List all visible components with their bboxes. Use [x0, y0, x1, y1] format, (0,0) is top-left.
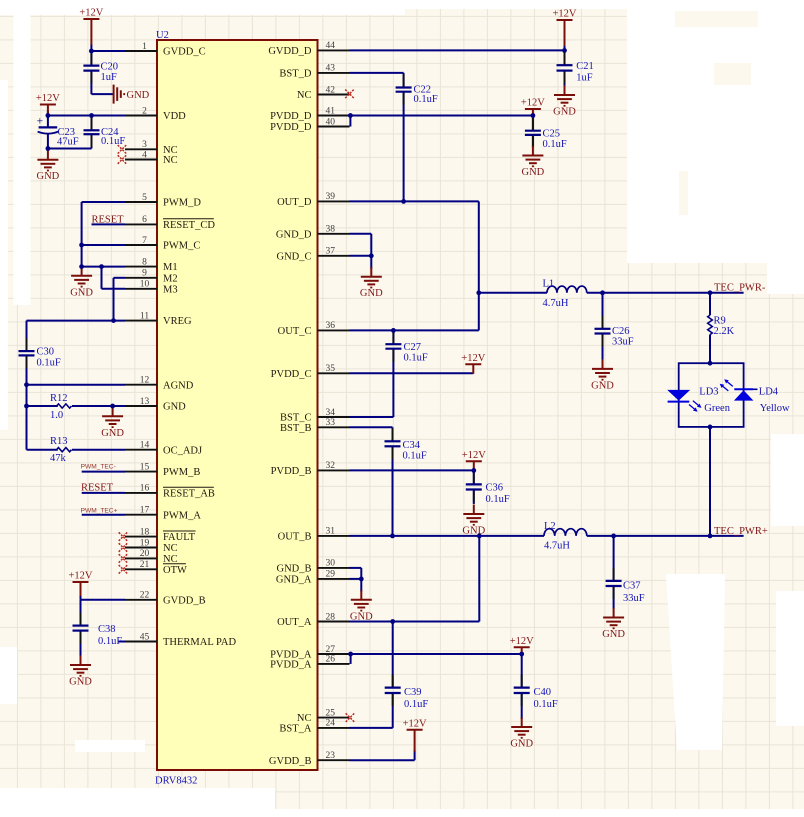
node junction at 710,426.9 — [708, 425, 713, 430]
ground — [350, 590, 373, 622]
wire pin23 GVDD_B — [350, 759, 415, 761]
svg-text:1.0: 1.0 — [50, 410, 63, 421]
wire C25 top lead — [532, 116, 534, 131]
wire pin13 GND right — [72, 405, 125, 407]
op-amp U1 - main IC U2 DRV8432 body — [155, 30, 318, 787]
wire +12V to pin1 — [90, 44, 92, 51]
svg-text:18: 18 — [140, 527, 150, 537]
pin 42 NC (right) — [297, 85, 350, 101]
svg-text:Yellow: Yellow — [760, 403, 790, 414]
wire C20 bottom — [90, 71, 92, 95]
pin 21 OTW (left) — [125, 560, 187, 576]
capacitor C27 — [385, 331, 427, 363]
wire C36 bottom lead — [473, 490, 475, 505]
wire C26 top lead — [602, 293, 604, 329]
wire pin28 OUT_A — [350, 621, 480, 623]
svg-text:31: 31 — [326, 527, 336, 537]
svg-text:OUT_C: OUT_C — [278, 326, 312, 337]
pin 35 PVDD_C (right) — [271, 364, 350, 380]
wire R9 top lead — [709, 293, 711, 315]
svg-text:24: 24 — [326, 719, 336, 729]
node junction at 710,363.2 — [708, 361, 713, 366]
wire pin38 GND_D — [350, 233, 372, 235]
pin 23 GVDD_B (right) — [269, 751, 350, 767]
svg-text:RESET_CD: RESET_CD — [163, 220, 215, 231]
pin 36 OUT_C (right) — [278, 321, 350, 337]
svg-text:THERMAL PAD: THERMAL PAD — [163, 637, 236, 648]
pin 28 OUT_A (right) — [277, 612, 349, 628]
svg-text:VREG: VREG — [163, 316, 192, 327]
pin 18 FAULT (left) — [125, 527, 196, 543]
svg-text:C38: C38 — [98, 624, 116, 635]
pin 9 M2 (left) — [125, 269, 178, 285]
svg-text:+12V: +12V — [462, 450, 486, 461]
svg-text:C36: C36 — [486, 483, 504, 494]
svg-text:C34: C34 — [403, 440, 421, 451]
wire pin17 PWM_A — [82, 514, 125, 516]
wire pin7 PWM_C — [82, 244, 125, 246]
node junction at 392.7,621.5 — [390, 619, 395, 624]
wire GND_BA stem — [360, 579, 362, 592]
svg-text:+12V: +12V — [510, 636, 534, 647]
svg-text:8: 8 — [142, 257, 147, 267]
svg-text:GND: GND — [591, 380, 614, 391]
svg-text:7: 7 — [142, 236, 147, 246]
capacitor C21 — [557, 52, 594, 83]
svg-text:17: 17 — [140, 506, 150, 516]
svg-text:NC: NC — [297, 90, 312, 101]
svg-text:U2: U2 — [156, 30, 169, 41]
ground — [553, 86, 576, 118]
svg-text:38: 38 — [326, 225, 336, 235]
svg-text:M1: M1 — [163, 262, 178, 273]
wire +12V to VDD — [47, 111, 49, 116]
svg-text:TEC_PWR+: TEC_PWR+ — [714, 526, 768, 537]
svg-text:RESET: RESET — [81, 482, 114, 493]
svg-text:+12V: +12V — [403, 718, 427, 729]
pin 26 PVDD_A (right) — [270, 655, 349, 671]
svg-text:GND: GND — [522, 167, 545, 178]
pin 27 PVDD_A (right) — [270, 645, 349, 661]
no-connect X — [118, 155, 127, 164]
wire pin2 VDD — [48, 115, 125, 117]
pin 30 GND_B (right) — [276, 559, 349, 575]
svg-text:TEC_PWR-: TEC_PWR- — [714, 283, 766, 294]
pin 12 AGND (left) — [125, 376, 194, 392]
svg-text:26: 26 — [326, 655, 336, 665]
pin 34 BST_C (right) — [280, 408, 350, 424]
node junction at 113.5,320.6 — [111, 318, 116, 323]
capacitor C26 — [595, 316, 634, 348]
svg-text:2: 2 — [142, 106, 147, 116]
pin 7 PWM_C (left) — [125, 236, 200, 252]
power +12V — [462, 450, 486, 471]
ground — [462, 505, 485, 537]
no-connect X — [346, 713, 355, 722]
svg-text:0.1uF: 0.1uF — [543, 139, 567, 150]
pin 4 NC (left) — [125, 150, 178, 166]
node junction at 350.6,654 — [348, 652, 353, 657]
wire pin11 VREG — [27, 320, 126, 322]
wire pin27 PVDD_A — [350, 653, 522, 655]
pin 19 NC (left) — [125, 538, 178, 554]
svg-text:LD3: LD3 — [699, 387, 718, 398]
node junction at 479.3,535.9 — [477, 534, 482, 539]
wire pin8 M1 — [82, 266, 125, 268]
wire pin41 PVDD_D — [350, 115, 533, 117]
svg-text:R9: R9 — [714, 316, 726, 327]
ground — [360, 267, 383, 299]
wire pin13 gnd stem — [112, 406, 114, 408]
svg-text:+: + — [37, 115, 44, 127]
wire pin26 link — [350, 654, 352, 664]
wire C37 top lead — [613, 536, 615, 581]
svg-text:GND: GND — [602, 629, 625, 640]
pin 44 GVDD_D (right) — [268, 41, 349, 57]
svg-text:5: 5 — [142, 193, 147, 203]
ground — [70, 266, 93, 298]
svg-text:BST_D: BST_D — [279, 69, 312, 80]
svg-text:10: 10 — [140, 280, 150, 290]
svg-text:PWM_TEC+: PWM_TEC+ — [81, 507, 118, 514]
pin 16 RESET_AB (left) — [125, 484, 215, 500]
svg-text:C39: C39 — [404, 687, 422, 698]
svg-text:32: 32 — [326, 461, 336, 471]
svg-text:C26: C26 — [612, 326, 630, 337]
capacitor C36 — [466, 471, 510, 505]
ground — [510, 718, 533, 750]
node junction at 47.9,148.5 — [46, 146, 51, 151]
svg-text:DRV8432: DRV8432 — [155, 776, 197, 787]
svg-text:27: 27 — [326, 645, 336, 655]
svg-text:47uF: 47uF — [57, 136, 79, 147]
wire +12V to pin23 — [414, 750, 416, 760]
svg-text:35: 35 — [326, 364, 336, 374]
svg-text:19: 19 — [140, 538, 150, 548]
svg-text:PVDD_A: PVDD_A — [270, 660, 312, 671]
node junction at 26.5,384.7 — [24, 382, 29, 387]
ground — [69, 656, 92, 688]
wire C34 top lead — [392, 427, 394, 441]
svg-text:GND: GND — [163, 402, 186, 413]
node junction at 403.6,201.4 — [401, 199, 406, 204]
svg-text:GND: GND — [101, 428, 124, 439]
ground — [522, 146, 545, 178]
svg-text:16: 16 — [140, 484, 150, 494]
capacitor C34 — [385, 428, 427, 461]
wire pin31 OUT_B — [350, 535, 545, 537]
svg-text:GND: GND — [37, 171, 60, 182]
wire pin5-pin8 vertical — [81, 202, 83, 267]
wire OUT_B to OUT_A — [478, 536, 480, 622]
resistor R13 — [50, 436, 72, 464]
capacitor C20 — [83, 53, 118, 84]
power +12V — [552, 9, 576, 46]
wire GND_B down — [360, 568, 362, 579]
svg-text:C25: C25 — [543, 129, 561, 140]
wire C39 top lead — [392, 622, 394, 688]
pin 40 PVDD_D (right) — [270, 117, 349, 133]
wire pin39 OUT_D — [350, 200, 479, 202]
wire C24 top lead — [91, 116, 93, 131]
pin 24 BST_A (right) — [279, 719, 349, 735]
svg-text:36: 36 — [326, 321, 336, 331]
LED LD3 Green — [667, 387, 731, 415]
svg-text:+12V: +12V — [521, 98, 545, 109]
wire pin45 stub — [118, 641, 125, 643]
capacitor C39 — [385, 675, 429, 710]
svg-text:30: 30 — [326, 559, 336, 569]
svg-text:+12V: +12V — [461, 353, 485, 364]
wire L2 right — [587, 535, 744, 537]
wire C40 bottom lead — [521, 693, 523, 719]
node junction at 91.4,51 — [89, 49, 94, 54]
pin 37 GND_C (right) — [276, 247, 349, 263]
wire C37 bottom lead — [613, 586, 615, 609]
pin 13 GND (left) — [125, 397, 186, 413]
resistor R12 — [50, 393, 72, 421]
capacitor C40 — [514, 675, 558, 710]
capacitor C30 — [19, 338, 61, 368]
svg-text:44: 44 — [326, 41, 336, 51]
svg-text:Green: Green — [704, 403, 730, 414]
wire C26 bottom lead — [602, 334, 604, 361]
svg-text:GVDD_C: GVDD_C — [163, 47, 206, 58]
capacitor C25 — [525, 118, 567, 150]
wire pin29 GND_A — [350, 578, 362, 580]
svg-text:PWM_D: PWM_D — [163, 198, 201, 209]
svg-text:OUT_D: OUT_D — [277, 197, 312, 208]
power +12V — [79, 8, 103, 45]
svg-text:GVDD_B: GVDD_B — [163, 595, 206, 606]
svg-text:L1: L1 — [543, 279, 555, 290]
white patch top band — [0, 0, 405, 15]
node junction at 478.8,292.8 — [476, 290, 481, 295]
wire pin1 GVDD_C — [91, 50, 125, 52]
svg-text:NC: NC — [163, 155, 178, 166]
wire pin44 GVDD_D — [350, 49, 565, 51]
wire GND_D down — [370, 234, 372, 256]
capacitor C24 — [84, 117, 126, 147]
wire C24 bottom lead — [91, 134, 93, 148]
svg-text:0.1uF: 0.1uF — [403, 451, 427, 462]
svg-text:BST_A: BST_A — [279, 724, 312, 735]
svg-text:PVDD_D: PVDD_D — [270, 111, 312, 122]
pin 41 PVDD_D (right) — [270, 106, 349, 122]
svg-text:GND: GND — [360, 288, 383, 299]
svg-text:+12V: +12V — [68, 571, 92, 582]
svg-text:C37: C37 — [623, 581, 641, 592]
pin 11 VREG (left) — [125, 311, 192, 327]
svg-text:C30: C30 — [37, 347, 55, 358]
svg-text:OTW: OTW — [163, 565, 187, 576]
node junction at 350.4,115.5 — [348, 113, 353, 118]
pin 22 GVDD_B (left) — [125, 591, 206, 607]
wire pin36 OUT_C — [350, 329, 479, 331]
svg-text:40: 40 — [326, 117, 336, 127]
svg-text:47k: 47k — [50, 453, 67, 464]
svg-text:11: 11 — [140, 311, 149, 321]
pin 43 BST_D (right) — [279, 64, 349, 80]
power +12V — [36, 93, 60, 115]
svg-text:33uF: 33uF — [623, 593, 645, 604]
svg-text:BST_B: BST_B — [280, 423, 312, 434]
svg-text:GND_B: GND_B — [276, 564, 311, 575]
wire C30 bottom vertical — [26, 355, 28, 449]
no-connect X — [119, 532, 128, 541]
svg-text:R13: R13 — [50, 436, 68, 447]
wire C21 top lead — [564, 50, 566, 65]
svg-text:0.1uF: 0.1uF — [404, 699, 428, 710]
white patch left band — [14, 0, 31, 305]
wire C23 top lead — [47, 116, 49, 128]
LED bridge box — [679, 363, 744, 427]
svg-text:PVDD_B: PVDD_B — [271, 466, 312, 477]
svg-text:33uF: 33uF — [612, 337, 634, 348]
svg-text:42: 42 — [326, 85, 336, 95]
no-connect X — [119, 554, 128, 563]
svg-text:12: 12 — [140, 376, 150, 386]
wire C23 bottom lead — [47, 135, 49, 149]
svg-text:LD4: LD4 — [759, 387, 779, 398]
capacitor C22 — [396, 75, 438, 106]
pin 6 RESET_CD (left) — [125, 215, 215, 231]
pin 33 BST_B (right) — [280, 418, 350, 434]
wire pin22 GVDD_B — [81, 599, 126, 601]
svg-text:OC_ADJ: OC_ADJ — [163, 445, 202, 456]
capacitor C23 electrolytic — [37, 115, 79, 147]
svg-text:22: 22 — [140, 591, 150, 601]
pin 31 OUT_B (right) — [278, 527, 350, 543]
svg-text:C21: C21 — [576, 61, 594, 72]
node junction at 91.5,115.5 — [89, 113, 94, 118]
svg-text:0.1uF: 0.1uF — [486, 494, 510, 505]
svg-text:L2: L2 — [544, 521, 556, 532]
svg-text:20: 20 — [140, 549, 150, 559]
pin 29 GND_A (right) — [276, 570, 350, 586]
node junction at 564.5,50.4 — [562, 48, 567, 53]
wire pin16 RESET_AB — [82, 492, 125, 494]
svg-text:NC: NC — [163, 543, 178, 554]
svg-text:C20: C20 — [101, 62, 119, 73]
svg-text:AGND: AGND — [163, 380, 194, 391]
wire pin10 M3 — [102, 288, 126, 290]
capacitor C37 — [606, 568, 645, 604]
node junction at 521.7,654 — [519, 652, 524, 657]
pin 17 PWM_A (left) — [125, 506, 201, 522]
wire M3 vertical — [101, 267, 103, 289]
wire M1 gnd stem — [81, 267, 83, 268]
svg-text:9: 9 — [142, 269, 147, 279]
svg-text:PWM_A: PWM_A — [163, 510, 201, 521]
white patch left lower — [0, 647, 17, 704]
wire pin14 OC_ADJ right — [72, 449, 125, 451]
wire C38 to gnd — [80, 631, 82, 657]
svg-text:37: 37 — [326, 247, 336, 257]
pin 32 PVDD_B (right) — [271, 461, 350, 477]
svg-text:GND: GND — [462, 526, 485, 537]
pin 39 OUT_D (right) — [277, 192, 349, 208]
ground — [602, 608, 625, 640]
svg-text:23: 23 — [326, 751, 336, 761]
svg-text:FAULT: FAULT — [163, 532, 196, 543]
svg-text:RESET: RESET — [92, 215, 125, 226]
wire pin30 GND_B — [350, 567, 362, 569]
pin 1 GVDD_C (left) — [125, 42, 206, 58]
pin 15 PWM_B (left) — [125, 462, 200, 478]
ground (rotated, C20) — [114, 85, 150, 104]
wire C34 to OUT_B — [392, 446, 394, 536]
wire pin9 M2 — [114, 277, 126, 279]
svg-text:1uF: 1uF — [101, 72, 118, 83]
svg-text:GND: GND — [70, 287, 93, 298]
wire L1 right — [587, 292, 744, 294]
ground — [591, 359, 614, 391]
svg-text:GND_A: GND_A — [276, 575, 312, 586]
svg-text:29: 29 — [326, 570, 336, 580]
svg-text:GND: GND — [553, 107, 576, 118]
svg-text:28: 28 — [326, 612, 336, 622]
node junction at 47.9,115.5 — [46, 113, 51, 118]
power +12V — [510, 636, 534, 655]
inductor L1 — [543, 279, 587, 310]
no-connect X — [118, 145, 127, 154]
svg-text:6: 6 — [142, 215, 147, 225]
svg-text:4.7uH: 4.7uH — [543, 298, 569, 309]
svg-text:0.1uF: 0.1uF — [37, 358, 61, 369]
svg-text:3: 3 — [142, 140, 147, 150]
svg-text:M2: M2 — [163, 273, 178, 284]
capacitor C38 — [73, 613, 123, 647]
wire pin12 AGND — [27, 384, 126, 386]
wire L1 left — [479, 292, 547, 294]
wire pin24 BST_A — [350, 727, 393, 729]
svg-text:39: 39 — [326, 192, 336, 202]
node junction at 101.5,266.6 — [99, 264, 104, 269]
wire pin43 BST_D — [350, 72, 404, 74]
wire C27 to BST_C — [392, 349, 394, 417]
ground — [101, 407, 124, 439]
svg-text:0.1uF: 0.1uF — [534, 699, 558, 710]
wire M2 vertical — [113, 278, 115, 321]
svg-text:PWM_C: PWM_C — [163, 241, 200, 252]
svg-text:25: 25 — [326, 708, 336, 718]
pin 14 OC_ADJ (left) — [125, 441, 202, 457]
pin 10 M3 (left) — [125, 280, 178, 296]
wire C39 bottom lead — [392, 693, 394, 728]
svg-text:21: 21 — [140, 560, 150, 570]
pin 2 VDD (left) — [125, 106, 186, 122]
inductor L2 — [544, 521, 587, 552]
svg-text:GVDD_D: GVDD_D — [268, 46, 312, 57]
node junction at 613.6,535.9 — [611, 534, 616, 539]
wire pin40 link — [349, 116, 351, 127]
wire LED bridge down — [709, 427, 711, 536]
wire +12V to pin44 — [564, 46, 566, 51]
svg-text:GND: GND — [350, 611, 373, 622]
wire C22 top lead — [403, 73, 405, 88]
white patch right mid — [767, 250, 804, 294]
wire pin33 BST_B — [350, 426, 393, 428]
wire OUT_D to OUT_C — [478, 201, 480, 330]
wire +12V to pin22 — [80, 595, 82, 600]
wire C21 bottom lead — [564, 71, 566, 87]
wire C20 gnd — [91, 93, 113, 95]
svg-text:GND: GND — [510, 739, 533, 750]
wire C22 to OUT_D — [403, 92, 405, 202]
svg-text:+12V: +12V — [36, 93, 60, 104]
no-connect X — [119, 565, 128, 574]
